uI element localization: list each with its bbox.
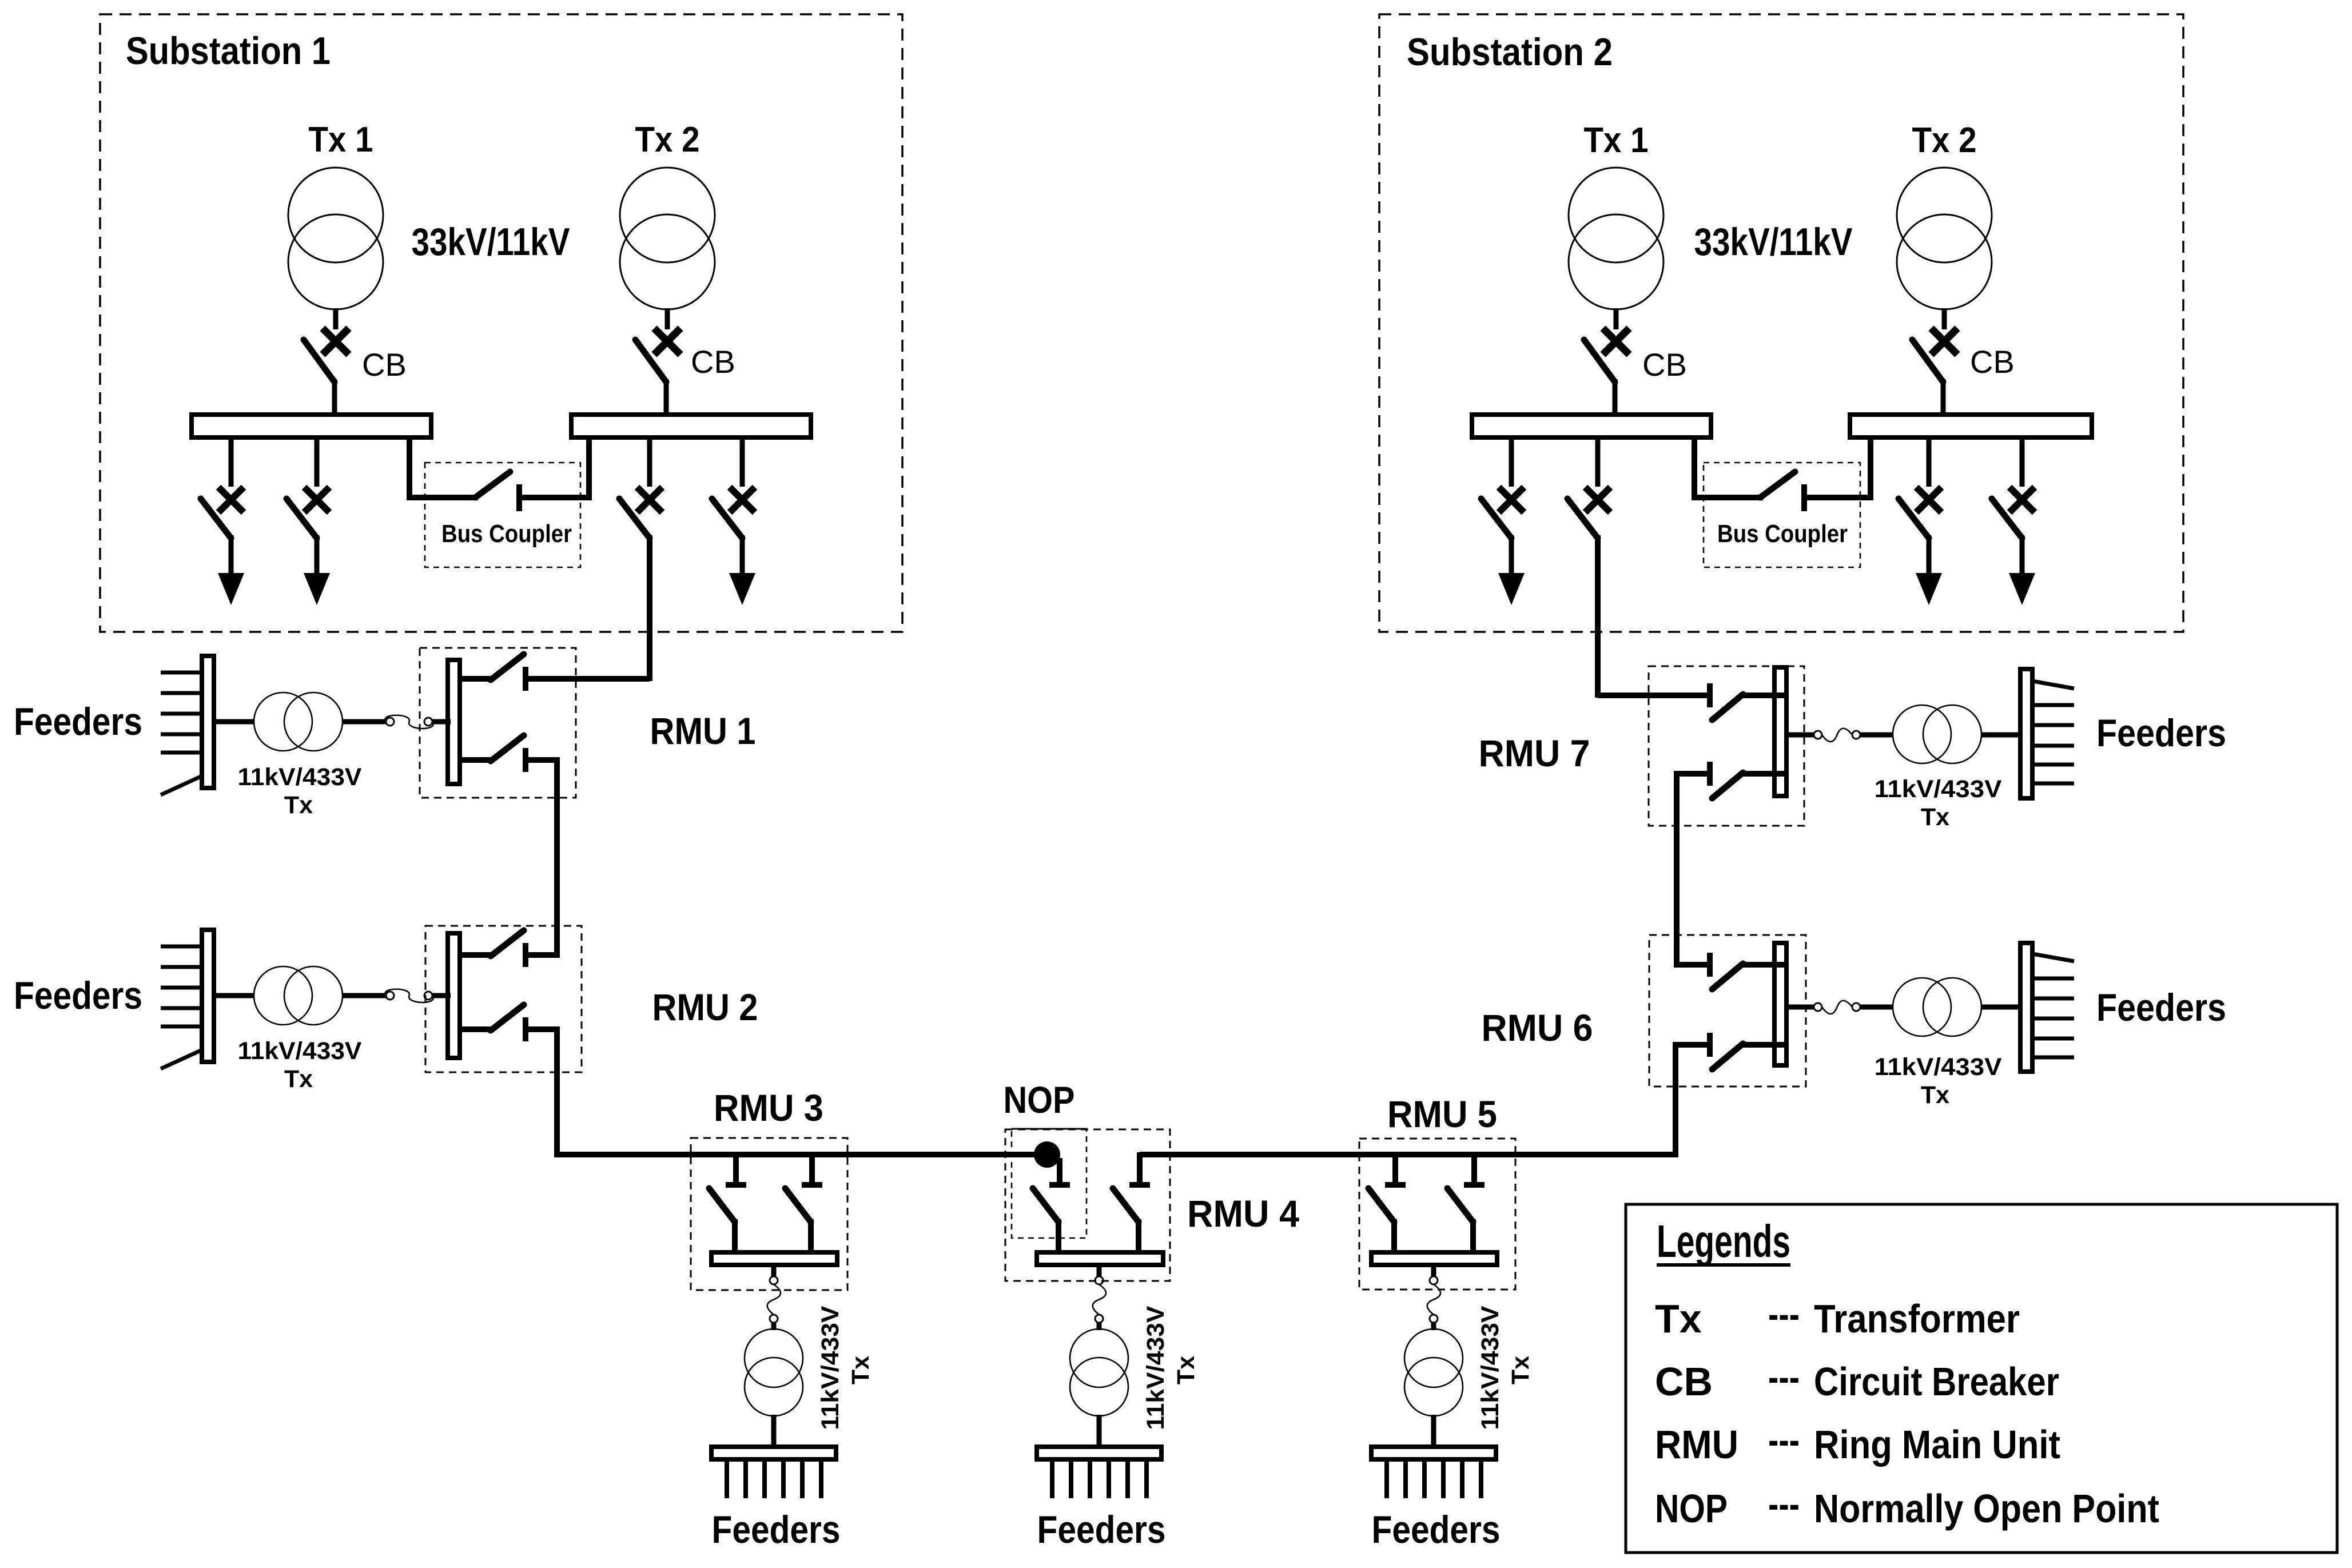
label Substation 1 xyxy=(126,29,331,73)
RMU 2 top switch xyxy=(460,930,559,967)
RMU 2 feeder lines xyxy=(161,946,202,1069)
svg-text:Legends: Legends xyxy=(1657,1216,1790,1267)
RMU 5 feeder lines xyxy=(1387,1459,1481,1498)
RMU 6 cable joint xyxy=(1784,1001,1860,1014)
svg-text:Tx: Tx xyxy=(1172,1356,1200,1384)
svg-text:11kV/433V: 11kV/433V xyxy=(1142,1306,1169,1430)
label Feeders (RMU 1) xyxy=(14,700,142,743)
RMU 2 bottom switch xyxy=(460,1005,559,1041)
wire RMU 2 to RMU 3 xyxy=(527,1026,739,1155)
RMU 3 left switch xyxy=(709,1152,746,1255)
RMU 6 feeder bar xyxy=(2020,943,2032,1072)
label Feeders (RMU 2) xyxy=(14,974,142,1017)
svg-text:Circuit Breaker: Circuit Breaker xyxy=(1814,1359,2059,1404)
svg-text:Feeders: Feeders xyxy=(14,700,142,743)
svg-text:Tx: Tx xyxy=(1655,1296,1702,1341)
transformer Tx 2 (substation 1) label xyxy=(635,120,700,160)
RMU 3 right switch xyxy=(785,1152,822,1255)
label CB (substation 2 Tx 1) xyxy=(1642,347,1687,383)
wire RMU 5 to RMU 6 xyxy=(1392,1042,1678,1157)
RMU 7 distribution transformer 11kV/433V xyxy=(1860,705,2020,763)
RMU 5 left switch xyxy=(1368,1152,1406,1255)
svg-text:---: --- xyxy=(1768,1418,1800,1462)
NOP switch xyxy=(1033,1158,1070,1255)
label CB (substation 1 Tx 2) xyxy=(691,344,735,380)
svg-text:NOP: NOP xyxy=(1004,1079,1075,1121)
transformer Tx 1 (substation 1) xyxy=(288,168,383,329)
RMU 1 distribution transformer 11kV/433V xyxy=(215,693,386,751)
svg-text:Tx: Tx xyxy=(1921,803,1949,831)
legends box xyxy=(1626,1204,2337,1553)
legend row RMU - Ring Main Unit xyxy=(1655,1418,2060,1467)
label 11kV/433V (RMU 5) xyxy=(1477,1306,1504,1430)
svg-text:Feeders: Feeders xyxy=(2096,986,2226,1029)
RMU 5 enclosure (dashed box) xyxy=(1359,1139,1515,1290)
wire RMU 1 to RMU 2 xyxy=(527,757,559,958)
svg-text:11kV/433V: 11kV/433V xyxy=(238,1037,362,1065)
wire substation 1 busbar to RMU 1 top xyxy=(527,676,650,682)
svg-text:Feeders: Feeders xyxy=(1372,1508,1501,1551)
svg-text:RMU 3: RMU 3 xyxy=(714,1087,823,1129)
RMU 5 feeder bar xyxy=(1371,1415,1496,1459)
bus coupler box (substation 1) xyxy=(425,463,580,567)
svg-text:Tx: Tx xyxy=(1921,1081,1949,1109)
feeder switch with arrow (bus 2B #2) xyxy=(1899,436,1942,605)
RMU 2 enclosure (dashed box) xyxy=(425,926,582,1072)
wire substation 2 to RMU 7 top xyxy=(1598,693,1709,698)
label RMU 2 xyxy=(652,986,758,1028)
svg-text:33kV/11kV: 33kV/11kV xyxy=(412,220,570,264)
busbar 2B (substation 2 right) xyxy=(1850,415,2092,437)
label Tx (RMU 7) xyxy=(1921,803,1949,831)
svg-text:RMU 1: RMU 1 xyxy=(650,710,756,752)
label Substation 2 xyxy=(1407,30,1613,74)
label CB (substation 1 Tx 1) xyxy=(362,347,407,383)
NOP normally open point (filled node) xyxy=(1034,1141,1060,1168)
RMU 3 feeder bar xyxy=(711,1415,836,1459)
RMU 1 feeder lines xyxy=(161,672,202,795)
label 11kV/433V (RMU 6) xyxy=(1875,1053,2002,1081)
svg-text:Transformer: Transformer xyxy=(1814,1296,2020,1341)
label Bus Coupler (substation 1) xyxy=(441,520,572,548)
RMU 2 feeder bar xyxy=(202,930,214,1062)
label 33kV/11kV (substation 1) xyxy=(412,220,570,264)
wire RMU 6 to RMU 7 riser xyxy=(1674,771,1680,968)
RMU 4 distribution transformer 11kV/433V xyxy=(1070,1329,1128,1416)
RMU 1 bottom switch xyxy=(460,735,559,772)
RMU 3 feeder lines xyxy=(727,1459,821,1498)
RMU 6 top switch xyxy=(1677,953,1786,989)
circuit breaker CB (substation 2 Tx 1) xyxy=(1584,328,1629,417)
RMU 1 feeder bar xyxy=(202,656,214,788)
busbar 1B (substation 1 right) xyxy=(571,415,811,437)
label Tx (RMU 4) xyxy=(1172,1356,1200,1384)
svg-text:Feeders: Feeders xyxy=(2096,711,2226,755)
busbar 1A (substation 1 left) xyxy=(192,415,431,437)
label 33kV/11kV (substation 2) xyxy=(1694,220,1853,264)
RMU 6 feeder lines xyxy=(2032,954,2074,1057)
svg-text:Tx 2: Tx 2 xyxy=(635,120,700,160)
RMU 7 busbar xyxy=(1774,667,1786,796)
RMU 7 feeder lines xyxy=(2032,681,2074,783)
label RMU 1 xyxy=(650,710,756,752)
feeder switch with arrow (bus 1A #1) xyxy=(201,436,244,605)
label 11kV/433V (RMU 1) xyxy=(238,763,362,791)
wire substation 1 to RMU 1 (drop at bus 1B) xyxy=(619,436,662,681)
label Legends (underlined) xyxy=(1657,1216,1790,1267)
RMU 6 distribution transformer 11kV/433V xyxy=(1860,978,2020,1036)
RMU 6 enclosure (dashed box) xyxy=(1649,935,1806,1087)
svg-text:Substation 2: Substation 2 xyxy=(1407,30,1613,74)
svg-text:11kV/433V: 11kV/433V xyxy=(1875,1053,2002,1081)
label Feeders (RMU 6) xyxy=(2096,986,2226,1029)
bus coupler switch (substation 1) xyxy=(407,436,592,511)
substation 1 enclosure (dashed box) xyxy=(100,14,902,632)
RMU 3 cable joint xyxy=(767,1263,781,1330)
svg-text:11kV/433V: 11kV/433V xyxy=(238,763,362,791)
feeder switch with arrow (bus 2B #3) xyxy=(1992,436,2035,605)
svg-text:11kV/433V: 11kV/433V xyxy=(817,1306,844,1430)
RMU 2 distribution transformer 11kV/433V xyxy=(215,966,386,1025)
svg-text:Feeders: Feeders xyxy=(14,974,142,1017)
label RMU 3 xyxy=(714,1087,823,1129)
svg-text:33kV/11kV: 33kV/11kV xyxy=(1694,220,1853,264)
wire RMU 3 to NOP xyxy=(733,1152,1036,1157)
legend row Tx - Transformer xyxy=(1655,1292,2020,1341)
svg-text:11kV/433V: 11kV/433V xyxy=(1875,775,2002,803)
RMU 4 feeder lines xyxy=(1052,1459,1147,1498)
svg-text:Substation 1: Substation 1 xyxy=(126,29,331,73)
bus coupler switch (substation 2) xyxy=(1692,436,1873,511)
label 11kV/433V (RMU 4) xyxy=(1142,1306,1169,1430)
label CB (substation 2 Tx 2) xyxy=(1970,344,2015,380)
RMU 4 cable joint xyxy=(1093,1263,1106,1330)
legend row CB - Circuit Breaker xyxy=(1655,1355,2059,1404)
svg-text:Tx: Tx xyxy=(1507,1356,1534,1384)
svg-text:CB: CB xyxy=(1655,1359,1713,1404)
RMU 4 feeder bar xyxy=(1037,1415,1161,1459)
svg-text:Tx: Tx xyxy=(284,791,313,819)
NOP enclosure (dashed box) xyxy=(1012,1129,1087,1238)
label Feeders (RMU 3) xyxy=(712,1508,841,1551)
RMU 4 enclosure (dashed box) xyxy=(1005,1129,1170,1281)
label Feeders (RMU 5) xyxy=(1372,1508,1501,1551)
transformer Tx 2 (substation 2) xyxy=(1897,168,1992,329)
label RMU 5 xyxy=(1387,1093,1497,1135)
transformer Tx 1 (substation 1) label xyxy=(309,120,373,160)
wire RMU 4 to RMU 5 xyxy=(1140,1152,1398,1157)
label 11kV/433V (RMU 7) xyxy=(1875,775,2002,803)
transformer Tx 1 (substation 2) label xyxy=(1584,121,1649,160)
label Feeders (RMU 7) xyxy=(2096,711,2226,755)
svg-text:RMU 6: RMU 6 xyxy=(1482,1006,1593,1049)
label Feeders (RMU 4) xyxy=(1037,1508,1166,1551)
svg-text:Tx: Tx xyxy=(284,1065,313,1093)
svg-text:RMU 7: RMU 7 xyxy=(1479,732,1590,774)
label Tx (RMU 3) xyxy=(847,1356,874,1384)
RMU 6 busbar xyxy=(1774,943,1786,1065)
label RMU 7 xyxy=(1479,732,1590,774)
svg-text:Tx 1: Tx 1 xyxy=(309,120,373,160)
RMU 5 right switch xyxy=(1447,1152,1485,1255)
svg-text:---: --- xyxy=(1768,1482,1800,1526)
circuit breaker CB (substation 2 Tx 2) xyxy=(1912,328,1957,417)
circuit breaker CB (substation 1 Tx 1) xyxy=(304,328,349,417)
label Tx (RMU 6) xyxy=(1921,1081,1949,1109)
svg-text:Bus Coupler: Bus Coupler xyxy=(441,520,572,548)
svg-text:CB: CB xyxy=(1970,344,2015,380)
svg-text:NOP: NOP xyxy=(1655,1486,1728,1531)
feeder switch with arrow (bus 2A #1) xyxy=(1481,436,1525,605)
svg-text:Tx 2: Tx 2 xyxy=(1912,121,1977,160)
svg-text:CB: CB xyxy=(691,344,735,380)
svg-text:11kV/433V: 11kV/433V xyxy=(1477,1306,1504,1430)
label Tx (RMU 5) xyxy=(1507,1356,1534,1384)
RMU 4 right switch xyxy=(1113,1152,1150,1255)
RMU 2 busbar xyxy=(448,933,460,1058)
RMU 3 enclosure (dashed box) xyxy=(691,1138,847,1290)
svg-text:CB: CB xyxy=(362,347,407,383)
RMU 2 cable joint xyxy=(385,989,451,1002)
svg-text:---: --- xyxy=(1768,1292,1800,1336)
RMU 7 cable joint xyxy=(1784,729,1860,742)
RMU 1 enclosure (dashed box) xyxy=(420,648,576,798)
busbar 2A (substation 2 left) xyxy=(1472,415,1711,437)
svg-text:Bus Coupler: Bus Coupler xyxy=(1717,520,1848,548)
RMU 4 bus xyxy=(1037,1252,1163,1265)
feeder switch with arrow (bus 1A #2) xyxy=(286,436,330,605)
label 11kV/433V (RMU 3) xyxy=(817,1306,844,1430)
transformer Tx 1 (substation 2) xyxy=(1569,168,1663,329)
RMU 1 busbar xyxy=(448,660,460,784)
svg-text:Feeders: Feeders xyxy=(1037,1508,1166,1551)
svg-text:RMU: RMU xyxy=(1655,1422,1738,1467)
feeder switch with arrow (bus 1B #2) xyxy=(712,436,755,605)
RMU 7 top switch xyxy=(1598,683,1786,720)
transformer Tx 2 (substation 1) xyxy=(620,168,715,329)
legend row NOP - Normally Open Point xyxy=(1655,1482,2159,1531)
RMU 7 bottom switch xyxy=(1677,762,1786,798)
label Tx (RMU 2) xyxy=(284,1065,313,1093)
wire substation 2 to RMU 7 (drop at bus 2A) xyxy=(1567,436,1610,698)
svg-text:---: --- xyxy=(1768,1355,1800,1399)
svg-text:Ring Main Unit: Ring Main Unit xyxy=(1814,1422,2060,1467)
transformer Tx 2 (substation 2) label xyxy=(1912,121,1977,160)
RMU 5 cable joint xyxy=(1427,1263,1440,1330)
label 11kV/433V (RMU 2) xyxy=(238,1037,362,1065)
RMU 1 top switch xyxy=(460,654,559,691)
RMU 3 distribution transformer 11kV/433V xyxy=(745,1329,803,1416)
svg-text:Normally Open Point: Normally Open Point xyxy=(1814,1486,2159,1531)
circuit breaker CB (substation 1 Tx 2) xyxy=(635,328,680,417)
RMU 3 bus xyxy=(711,1252,837,1265)
svg-text:CB: CB xyxy=(1642,347,1687,383)
label RMU 6 xyxy=(1482,1006,1593,1049)
RMU 1 cable joint xyxy=(385,715,451,729)
RMU 7 feeder bar xyxy=(2020,669,2032,798)
label NOP xyxy=(1004,1079,1075,1121)
svg-text:Tx: Tx xyxy=(847,1356,874,1384)
svg-text:RMU 2: RMU 2 xyxy=(652,986,758,1028)
RMU 6 bottom switch xyxy=(1677,1033,1786,1069)
RMU 7 enclosure (dashed box) xyxy=(1649,666,1804,826)
substation 2 enclosure (dashed box) xyxy=(1379,14,2183,632)
RMU 5 distribution transformer 11kV/433V xyxy=(1404,1329,1463,1416)
bus coupler box (substation 2) xyxy=(1704,463,1860,567)
svg-text:Tx 1: Tx 1 xyxy=(1584,121,1649,160)
label Bus Coupler (substation 2) xyxy=(1717,520,1848,548)
svg-text:RMU 4: RMU 4 xyxy=(1187,1192,1299,1235)
RMU 5 bus xyxy=(1371,1252,1497,1265)
label Tx (RMU 1) xyxy=(284,791,313,819)
svg-text:Feeders: Feeders xyxy=(712,1508,841,1551)
svg-text:RMU 5: RMU 5 xyxy=(1387,1093,1497,1135)
label RMU 4 xyxy=(1187,1192,1299,1235)
